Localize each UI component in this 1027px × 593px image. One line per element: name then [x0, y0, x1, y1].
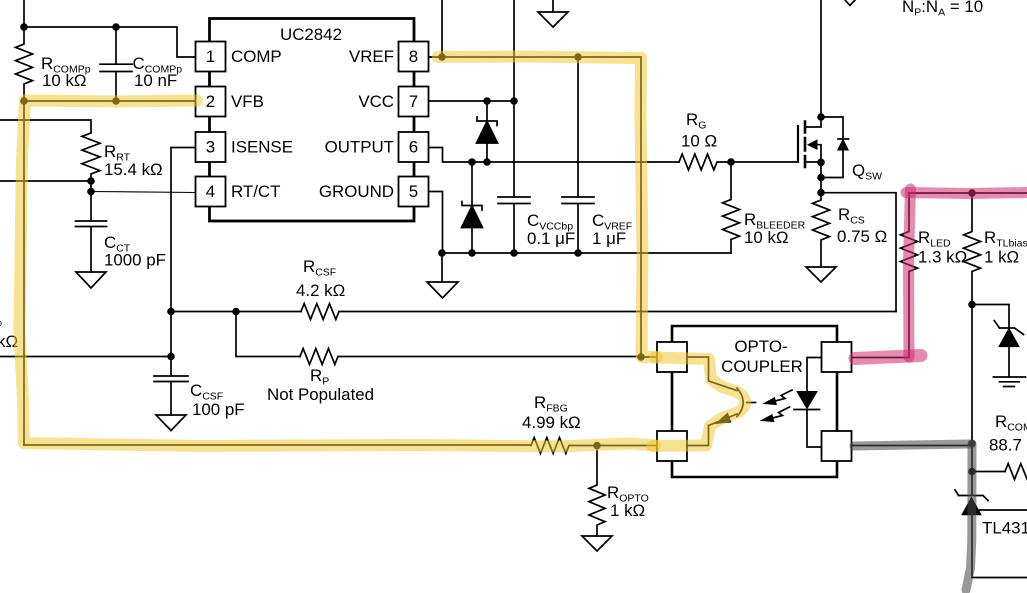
- wire RT/CT pin4: [91, 192, 196, 193]
- wire output rail right: [909, 192, 1027, 194]
- TL431: [955, 472, 988, 501]
- svg-text:15.4 kΩ: 15.4 kΩ: [104, 160, 163, 179]
- wire current sense RCSF: [171, 311, 301, 313]
- capacitor CVCCbp: [498, 101, 530, 253]
- svg-text:TL431: TL431: [982, 519, 1027, 538]
- svg-text:100 pF: 100 pF: [192, 400, 245, 419]
- svg-text:COMP: COMP: [231, 47, 282, 66]
- wire COMP node to pin1: [24, 27, 196, 57]
- wire left feedback vertical: [23, 101, 25, 445]
- svg-text:Not Populated: Not Populated: [267, 385, 374, 404]
- wire RTLbias to TL431: [971, 305, 973, 444]
- svg-text:4: 4: [206, 182, 215, 201]
- resistor RLED: [852, 193, 918, 358]
- wire top-left vertical into Rcompp node: [23, 0, 25, 27]
- svg-text:10 nF: 10 nF: [134, 71, 177, 90]
- wire TL431 cathode node: [971, 444, 973, 472]
- svg-text:0.75 Ω: 0.75 Ω: [837, 227, 887, 246]
- svg-text:1 kΩ: 1 kΩ: [610, 501, 645, 520]
- wire left into RRT bottom node: [0, 180, 91, 182]
- highlighter pink path: [855, 189, 1027, 359]
- pin names right: [319, 47, 394, 201]
- opto-coupler box: [672, 326, 837, 477]
- ground rail: [442, 252, 731, 254]
- wire top to VCC node: [513, 0, 515, 101]
- capacitor CCOMPp: [100, 27, 132, 101]
- resistor RBLEEDER: [723, 162, 740, 253]
- resistor RP: [300, 349, 641, 365]
- QSW body diode: [821, 117, 849, 178]
- resistor RG: [679, 154, 798, 170]
- wire top to VREF node: [441, 0, 443, 57]
- svg-text:GROUND: GROUND: [319, 182, 394, 201]
- wire OUTPUT pin6: [429, 148, 680, 163]
- wire GROUND pin5: [429, 192, 443, 254]
- ground top: [538, 0, 568, 27]
- svg-text:2: 2: [206, 92, 215, 111]
- zener right: [994, 321, 1023, 335]
- capacitor CVREF: [562, 57, 594, 253]
- ground CCT: [76, 272, 106, 288]
- svg-text:1 μF: 1 μF: [592, 229, 626, 248]
- svg-text:1: 1: [206, 47, 215, 66]
- svg-text:1000 pF: 1000 pF: [104, 251, 166, 270]
- QSW body arrow: [808, 140, 817, 149]
- ground RCS: [806, 267, 836, 282]
- svg-text:88.7: 88.7: [989, 436, 1022, 455]
- pin numbers: [206, 47, 418, 201]
- resistor RRT: [82, 133, 100, 181]
- svg-text:1 kΩ: 1 kΩ: [984, 248, 1019, 267]
- wire TL431 ref: [976, 509, 1027, 511]
- highlighter yellow feedback path: [20, 57, 746, 447]
- svg-text:VCC: VCC: [358, 92, 394, 111]
- wire left to RRT: [0, 120, 91, 133]
- wire bottom feedback: [24, 444, 531, 446]
- svg-text:4.99 kΩ: 4.99 kΩ: [522, 413, 581, 432]
- wire VCC pin7: [429, 100, 515, 102]
- svg-text:VFB: VFB: [231, 92, 264, 111]
- svg-text:3: 3: [206, 138, 215, 157]
- wire VFB pin2: [24, 100, 196, 102]
- wire opto output to TL431: [852, 445, 973, 447]
- wire RCOMP branch: [972, 471, 1005, 473]
- label opto-coupler: [721, 337, 803, 376]
- svg-text:COUPLER: COUPLER: [721, 357, 803, 376]
- capacitor CCT: [76, 221, 107, 272]
- earth ground: [993, 377, 1025, 387]
- transformer winding tip: [845, 0, 855, 6]
- UC2842 box: [210, 19, 415, 222]
- zener VCC upper triangle: [477, 122, 498, 144]
- svg-text:5: 5: [409, 182, 418, 201]
- svg-text:4.2 kΩ: 4.2 kΩ: [296, 281, 345, 300]
- resistor RCOMPp: [16, 27, 33, 101]
- svg-text:1.3 kΩ: 1.3 kΩ: [918, 248, 967, 267]
- highlighter gray path: [854, 444, 972, 590]
- resistor RCS: [813, 193, 830, 267]
- resistor RTLbias: [964, 193, 981, 305]
- resistor ROPTO: [589, 446, 605, 537]
- opto LED: [807, 358, 822, 392]
- svg-text:OPTO-: OPTO-: [734, 337, 787, 356]
- opto phototransistor arrow: [716, 413, 731, 423]
- opto terminal boxes: [657, 342, 852, 461]
- svg-text:7: 7: [409, 92, 418, 111]
- wire VREF pin8: [429, 57, 658, 357]
- svg-text:ISENSE: ISENSE: [231, 138, 293, 157]
- opto light arrow lower: [769, 407, 790, 419]
- zener VCC lower triangle: [462, 206, 483, 228]
- wire zener branch: [972, 305, 1009, 329]
- wire QSW source to sense: [821, 193, 896, 312]
- svg-text:UC2842: UC2842: [280, 25, 342, 44]
- wire RP branch: [236, 312, 300, 357]
- ground CCSF: [156, 415, 186, 431]
- svg-text:o: o: [0, 318, 2, 328]
- svg-text:6: 6: [409, 138, 418, 157]
- wire RRT node down to CCT: [90, 181, 92, 221]
- resistor RCOMP: [1005, 464, 1027, 480]
- wire left into CCSF node: [0, 356, 171, 358]
- svg-text:10 kΩ: 10 kΩ: [42, 71, 87, 90]
- svg-text:VREF: VREF: [349, 47, 394, 66]
- wire ISENSE pin3: [171, 148, 196, 357]
- zener VCC upper: [486, 101, 488, 162]
- svg-text:10 kΩ: 10 kΩ: [744, 228, 789, 247]
- transistor QSW mosfet: [805, 117, 821, 127]
- svg-text:OUTPUT: OUTPUT: [325, 138, 394, 157]
- ground ROPTO: [582, 536, 612, 551]
- opto light arrow upper: [771, 390, 792, 402]
- capacitor CCSF: [154, 357, 188, 416]
- svg-text:0.1 μF: 0.1 μF: [527, 229, 575, 248]
- ground symbol rail: [427, 253, 458, 298]
- wire transformer to QSW drain: [820, 0, 822, 117]
- opto phototransistor: [687, 357, 737, 391]
- svg-text:RT/CT: RT/CT: [231, 182, 280, 201]
- resistor RFBG: [531, 438, 657, 454]
- svg-text:10 Ω: 10 Ω: [681, 132, 717, 151]
- zener VCC lower: [471, 162, 473, 253]
- UC2842 pin boxes: [196, 42, 429, 207]
- svg-text:8: 8: [409, 47, 418, 66]
- resistor RCSF: [301, 304, 896, 320]
